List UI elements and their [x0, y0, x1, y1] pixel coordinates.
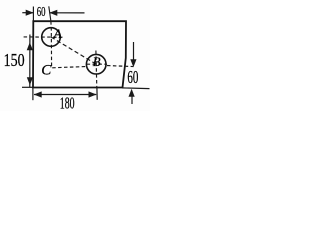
centerline B horizontal [87, 63, 107, 65]
bottom dim line 180 [34, 94, 96, 96]
bottom left extension (plate left edge extended down) [32, 87, 34, 100]
centerline B extension right [107, 66, 134, 67]
centerline C to B horizontal [52, 67, 86, 68]
circle A [42, 28, 61, 47]
background [0, 0, 150, 111]
top dim extension (left edge extended up) [32, 7, 34, 22]
bottom dim right arrow [89, 91, 97, 97]
left dim line 150 [29, 35, 31, 88]
svg-text:150: 150 [4, 50, 25, 70]
left dim down arrow [27, 77, 33, 85]
svg-text:180: 180 [60, 94, 75, 111]
bottom right extension (B centerline extended down) [96, 87, 98, 99]
top dim left arrow [22, 12, 33, 14]
svg-text:C: C [41, 62, 52, 78]
centerline B vertical [95, 51, 98, 88]
left dim bottom extension [22, 86, 33, 88]
right dim: bottom edge extended right [122, 87, 150, 90]
svg-text:60: 60 [127, 67, 138, 87]
right dim up arrow [131, 96, 133, 105]
centerline A horizontal [24, 36, 64, 38]
svg-text:B: B [93, 54, 101, 69]
plate outline [33, 21, 126, 87]
svg-text:60: 60 [37, 5, 46, 20]
bottom dim left arrow [34, 91, 42, 97]
dashed diagonal A to B [51, 37, 96, 64]
top dim right arrow [49, 12, 84, 14]
right dim down arrow [133, 42, 135, 60]
circle B [86, 54, 106, 74]
svg-text:A: A [53, 27, 62, 41]
centerline A vertical (top extension + crosshair + leg to C) [49, 6, 51, 21]
left dim up arrow [27, 42, 33, 50]
